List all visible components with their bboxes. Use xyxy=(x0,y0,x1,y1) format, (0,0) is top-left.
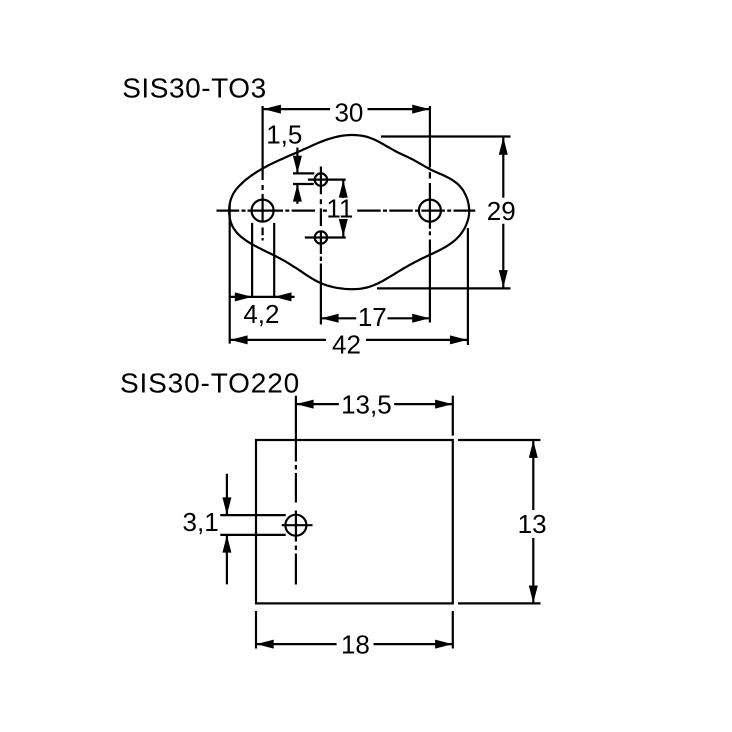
hole vertical centerline / 13,5 extension xyxy=(295,396,297,585)
svg-text:42: 42 xyxy=(332,330,361,360)
svg-text:29: 29 xyxy=(487,196,516,226)
hole horizontal centerline xyxy=(282,524,313,526)
svg-text:30: 30 xyxy=(334,98,363,128)
dimension 11 xyxy=(342,180,344,236)
18 left extension xyxy=(255,611,257,649)
dimension 30 xyxy=(263,108,429,110)
dimension 17 xyxy=(321,317,429,319)
1,5 tick lines (pin hole edges) xyxy=(293,172,314,174)
29 bottom extension xyxy=(377,287,511,289)
left hole vertical centerline / 30-extension xyxy=(262,106,264,241)
pin holes vertical centerline / 17 extension xyxy=(320,167,322,325)
13,5 right extension xyxy=(452,396,454,436)
3,1 tick lines (hole edges) xyxy=(220,514,285,516)
29 top extension xyxy=(381,135,511,137)
42 right extension xyxy=(467,228,469,345)
18 right extension xyxy=(452,611,454,649)
svg-text:1,5: 1,5 xyxy=(266,120,302,150)
svg-text:18: 18 xyxy=(341,630,370,660)
horizontal centerline xyxy=(217,210,476,212)
13 top extension xyxy=(458,439,541,441)
42 left extension xyxy=(229,204,231,344)
svg-text:13,5: 13,5 xyxy=(341,390,392,420)
TO220 mounting hole xyxy=(285,515,306,536)
svg-text:4,2: 4,2 xyxy=(243,299,279,329)
TO3 insulator outline xyxy=(229,135,469,289)
bottom pin hole xyxy=(315,231,327,243)
svg-text:17: 17 xyxy=(358,302,387,332)
13 bottom extension xyxy=(458,602,541,604)
svg-text:11: 11 xyxy=(326,194,353,224)
4,2 extension lines xyxy=(251,223,253,298)
top pin hole xyxy=(315,173,327,185)
right hole vertical centerline / 30+17 extension xyxy=(429,106,431,323)
TO220 insulator outline xyxy=(256,440,453,603)
top pin hole horizontal line xyxy=(308,179,346,181)
svg-text:13: 13 xyxy=(518,509,547,539)
svg-text:SIS30-TO3: SIS30-TO3 xyxy=(122,73,267,104)
right mounting hole xyxy=(419,200,441,222)
svg-text:SIS30-TO220: SIS30-TO220 xyxy=(120,367,300,398)
bottom pin hole horizontal line xyxy=(305,236,346,238)
svg-text:3,1: 3,1 xyxy=(183,507,219,537)
left mounting hole xyxy=(252,200,274,222)
